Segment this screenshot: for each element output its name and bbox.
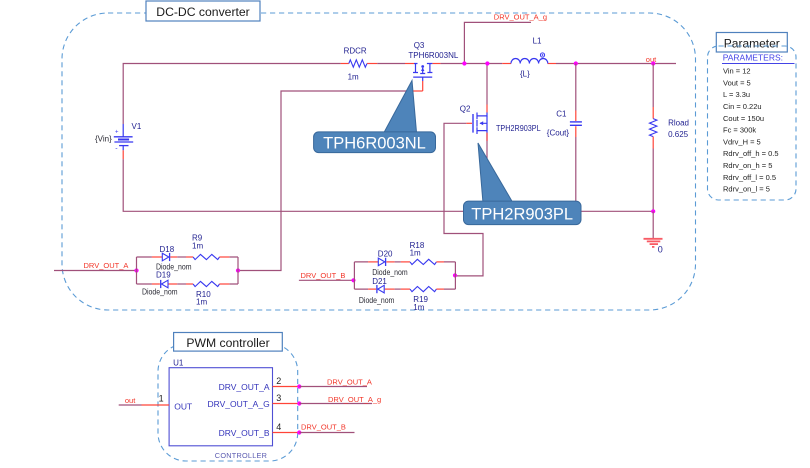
net label out <box>646 55 657 64</box>
svg-text:DRV_OUT_A: DRV_OUT_A <box>219 382 270 392</box>
resistor R18 <box>410 241 444 265</box>
svg-text:D21: D21 <box>372 277 387 286</box>
svg-text:Diode_nom: Diode_nom <box>372 268 408 277</box>
svg-text:DRV_OUT_A_g: DRV_OUT_A_g <box>328 395 381 404</box>
block B frame wires <box>354 262 455 289</box>
diode D21 <box>359 277 410 305</box>
node junction at Q2 drain <box>485 61 489 65</box>
transistor Q3 TPH6R003NL <box>405 41 459 81</box>
node junction block B left <box>351 278 355 282</box>
parameter list <box>723 67 779 194</box>
Parameter dashed box <box>708 46 797 200</box>
wire: bottom rail (V1 minus to ground) <box>123 159 653 211</box>
svg-text:D20: D20 <box>378 250 393 259</box>
U1 pin 4 <box>273 422 298 433</box>
node junction at DRV_OUT_A_g <box>462 61 466 65</box>
wire: Q3 to L1 node <box>441 63 503 65</box>
node junction block A left <box>134 268 138 272</box>
diode D18 <box>152 245 193 272</box>
net label DRV_OUT_A (left) <box>84 261 129 270</box>
svg-text:Rdrv_on_h = 5: Rdrv_on_h = 5 <box>723 161 772 170</box>
svg-text:Vout = 5: Vout = 5 <box>723 78 751 87</box>
resistor R10 <box>193 281 229 306</box>
svg-text:TPH6R003NL: TPH6R003NL <box>323 135 426 153</box>
U1 pin 1 <box>142 394 170 405</box>
svg-text:1m: 1m <box>410 249 421 258</box>
svg-text:D18: D18 <box>160 245 175 254</box>
svg-text:Rdrv_off_h = 0.5: Rdrv_off_h = 0.5 <box>723 149 779 158</box>
node junction block A right <box>236 268 240 272</box>
resistor R9 <box>192 234 229 260</box>
node junction at rail/ground <box>651 209 655 213</box>
wire: V1 top to RDCR <box>123 64 340 125</box>
svg-text:L1: L1 <box>533 37 542 46</box>
svg-text:DC-DC converter: DC-DC converter <box>156 5 249 19</box>
wire: DRV_OUT_B into block B <box>299 279 354 281</box>
resistor R19 <box>410 287 444 312</box>
svg-text:Cout = 150u: Cout = 150u <box>723 114 764 123</box>
DC-DC converter region dashed border <box>62 13 696 310</box>
wire: pin4 net <box>299 432 354 434</box>
svg-text:Rdrv_off_l = 0.5: Rdrv_off_l = 0.5 <box>723 173 776 182</box>
svg-text:C1: C1 <box>556 110 567 119</box>
net label DRV_OUT_A_g (pwm) <box>328 395 381 404</box>
diode D20 <box>368 250 410 277</box>
svg-text:Cin = 0.22u: Cin = 0.22u <box>723 102 762 111</box>
svg-text:DRV_OUT_A: DRV_OUT_A <box>84 261 129 270</box>
svg-text:PARAMETERS:: PARAMETERS: <box>723 53 783 63</box>
U1 pin 3 <box>273 393 298 404</box>
svg-text:Diode_nom: Diode_nom <box>142 288 178 297</box>
wire: Q3 gate net down to block A <box>238 81 423 271</box>
svg-text:Q2: Q2 <box>460 105 471 114</box>
svg-text:1: 1 <box>159 394 164 404</box>
svg-text:RDCR: RDCR <box>344 47 367 56</box>
svg-text:1m: 1m <box>196 298 207 307</box>
svg-text:1m: 1m <box>192 242 203 251</box>
node junction at out/Rload <box>651 61 655 65</box>
svg-text:Parameter: Parameter <box>724 37 780 51</box>
svg-text:out: out <box>125 396 136 405</box>
svg-text:Vin = 12: Vin = 12 <box>723 67 751 76</box>
svg-text:DRV_OUT_B: DRV_OUT_B <box>219 428 270 438</box>
svg-text:Diode_nom: Diode_nom <box>359 296 395 305</box>
svg-text:+: + <box>115 130 119 136</box>
net label DRV_OUT_B (pwm) <box>301 423 346 432</box>
svg-text:2: 2 <box>276 376 281 386</box>
svg-text:0: 0 <box>658 245 663 255</box>
op-amp U1 controller box <box>169 359 272 461</box>
svg-text:OUT: OUT <box>174 402 192 412</box>
node junction pin 2 <box>297 384 301 388</box>
node junction pin 4 <box>297 430 301 434</box>
svg-text:4: 4 <box>276 422 281 432</box>
svg-text:1m: 1m <box>348 73 359 82</box>
resistor RDCR <box>341 47 378 82</box>
net label DRV_OUT_A (pwm) <box>327 378 372 387</box>
wire: RDCR to Q3 <box>377 63 405 65</box>
block A frame wires <box>137 257 239 284</box>
svg-text:Q3: Q3 <box>414 41 425 50</box>
node junction block B right <box>453 273 457 277</box>
svg-text:{L}: {L} <box>520 70 530 79</box>
svg-text:1m: 1m <box>413 303 424 312</box>
svg-text:CONTROLLER: CONTROLLER <box>215 451 267 460</box>
svg-text:TPH6R003NL: TPH6R003NL <box>408 51 459 60</box>
ground 0 <box>644 211 663 254</box>
wire: Q2 gate net down to block B <box>444 123 483 276</box>
svg-text:U1: U1 <box>173 359 184 368</box>
svg-text:3: 3 <box>276 393 281 403</box>
PARAMETERS: heading <box>722 53 795 64</box>
Parameter title box <box>716 33 787 53</box>
svg-text:L = 3.3u: L = 3.3u <box>723 90 750 99</box>
svg-text:DRV_OUT_A_g: DRV_OUT_A_g <box>494 13 547 22</box>
node junction at C1 top <box>574 61 578 65</box>
diode D19 <box>142 271 193 297</box>
wire: DRV_OUT_A_g stub at top <box>464 22 531 63</box>
PWM controller region dashed border <box>158 344 298 462</box>
PWM controller title box <box>174 333 283 352</box>
transistor Q2 TPH2R903PL <box>460 105 541 203</box>
inductor L1 <box>502 37 556 79</box>
U1 pin 2 <box>273 376 298 387</box>
svg-text:Rdrv_on_l = 5: Rdrv_on_l = 5 <box>723 185 770 194</box>
svg-text:Vdrv_H = 5: Vdrv_H = 5 <box>723 137 761 146</box>
wire: node to Q2 drain <box>486 64 488 113</box>
svg-text:{Vin}: {Vin} <box>95 135 112 144</box>
svg-text:DRV_OUT_A: DRV_OUT_A <box>327 378 372 387</box>
wire: pin2 net <box>299 386 367 388</box>
resistor Rload <box>650 64 690 212</box>
net label DRV_OUT_B <box>301 271 346 280</box>
wire: DRV_OUT_A into block A <box>54 270 137 272</box>
svg-text:0.625: 0.625 <box>668 130 689 139</box>
svg-text:Rload: Rload <box>668 119 689 128</box>
svg-text:TPH2R903PL: TPH2R903PL <box>496 124 541 133</box>
svg-text:V1: V1 <box>132 122 142 131</box>
net label out (pwm input) <box>119 396 142 405</box>
voltage source V1 <box>95 122 142 159</box>
callout TPH6R003NL <box>314 81 436 153</box>
svg-text:DRV_OUT_B: DRV_OUT_B <box>301 423 346 432</box>
capacitor C1 <box>547 64 582 203</box>
net label DRV_OUT_A_g (top) <box>494 13 547 22</box>
wire: L1 to out node <box>556 63 676 65</box>
DC-DC converter title box <box>146 1 260 21</box>
svg-text:TPH2R903PL: TPH2R903PL <box>471 206 573 224</box>
node junction pin 3 <box>297 401 301 405</box>
callout TPH2R903PL <box>464 143 582 225</box>
svg-text:DRV_OUT_A_G: DRV_OUT_A_G <box>207 399 269 409</box>
svg-text:Fc = 300k: Fc = 300k <box>723 126 756 135</box>
svg-text:D19: D19 <box>156 271 171 280</box>
svg-text:{Cout}: {Cout} <box>547 129 570 138</box>
wire: pin3 net <box>299 403 372 405</box>
svg-text:PWM controller: PWM controller <box>186 336 269 350</box>
svg-text:DRV_OUT_B: DRV_OUT_B <box>301 271 346 280</box>
